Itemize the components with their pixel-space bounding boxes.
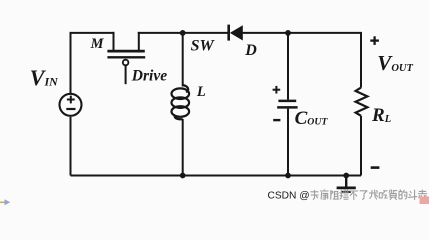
wire: inductor to bottom rail bbox=[182, 119, 184, 176]
wire: bottom rail bbox=[71, 175, 362, 177]
wire: COUT branch bottom bbox=[287, 109, 289, 176]
svg-text:L: L bbox=[196, 84, 206, 100]
wire: RL bottom lead bbox=[360, 116, 362, 176]
label: - sign at COUT bbox=[273, 119, 280, 121]
wire: SW node to diode anode side bbox=[183, 32, 228, 34]
ground symbol bbox=[337, 176, 356, 192]
label: - sign at VOUT bottom bbox=[371, 166, 380, 169]
node SW junction dot bbox=[180, 30, 186, 36]
node: COUT tap on top rail bbox=[285, 30, 291, 36]
wire: diode to top-right corner and down to RL bbox=[243, 33, 361, 88]
wire: VIN bottom lead bbox=[70, 117, 72, 176]
svg-text:Drive: Drive bbox=[131, 67, 167, 84]
wire: VIN top lead up to top rail and over to MOSFET bbox=[71, 33, 115, 95]
svg-text:SW: SW bbox=[191, 38, 216, 55]
wire: COUT branch top bbox=[287, 33, 289, 100]
svg-text:M: M bbox=[90, 36, 105, 52]
label: + sign at VOUT top bbox=[370, 36, 379, 45]
inductor L (coil of three rings) bbox=[172, 85, 190, 119]
wire: SW node down to inductor bbox=[182, 33, 184, 87]
watermark: synthetic CJK glyph blocks bbox=[311, 190, 427, 200]
svg-text:D: D bbox=[244, 42, 257, 59]
node: inductor bottom junction dot bbox=[180, 173, 186, 179]
svg-text:VIN: VIN bbox=[30, 65, 59, 90]
node: ground junction dot bbox=[343, 173, 349, 179]
svg-text:RL: RL bbox=[371, 105, 391, 126]
capacitor COUT bbox=[277, 101, 297, 108]
pink sticker bottom-right bbox=[420, 197, 429, 205]
cursor arrow bottom-left bbox=[0, 199, 10, 205]
wire: MOSFET drain to SW node bbox=[138, 32, 183, 34]
svg-text:CSDN @: CSDN @ bbox=[268, 191, 310, 202]
svg-text:VOUT: VOUT bbox=[377, 51, 413, 75]
label: + sign at COUT bbox=[273, 86, 281, 94]
diode D bbox=[229, 25, 243, 41]
transistor M (PMOS switch) bbox=[107, 32, 145, 84]
svg-text:COUT: COUT bbox=[295, 108, 329, 129]
resistor RL zigzag bbox=[356, 88, 368, 116]
voltage source VIN bbox=[60, 94, 82, 116]
node: COUT bottom junction dot bbox=[285, 173, 291, 179]
